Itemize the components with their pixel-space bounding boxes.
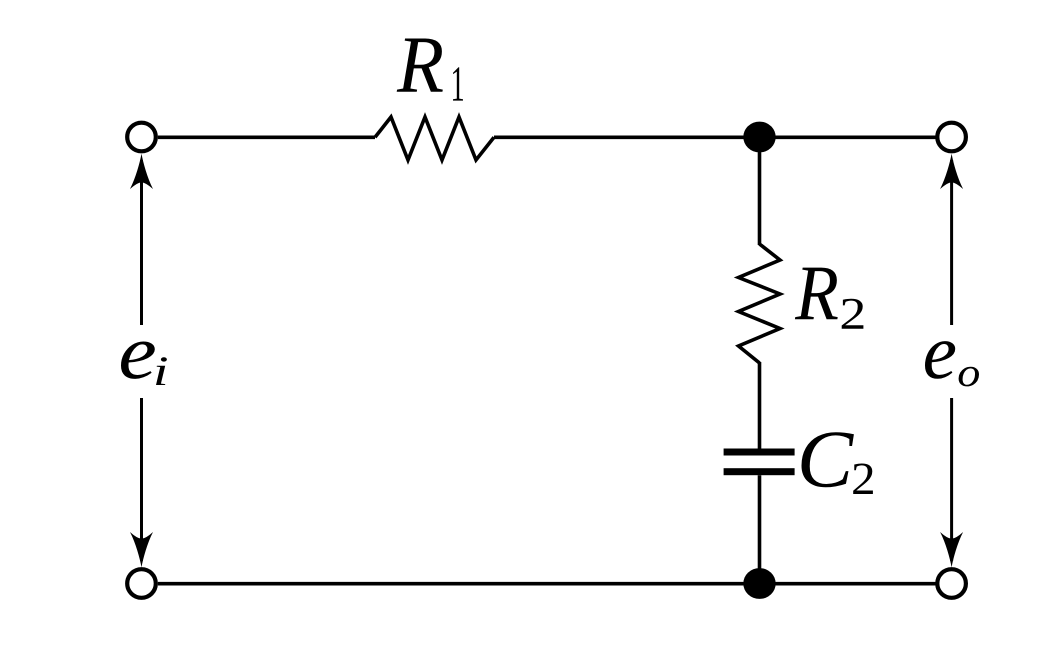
terminal: input bottom-left open circle [127,569,156,598]
wire: top rail right segment (R1 to output terminal) [494,136,936,140]
node: bottom junction dot [743,568,775,599]
wire: e_o arrow shaft upper [950,160,953,325]
wire: e_o arrow shaft lower [950,398,953,561]
label R2 [795,268,838,320]
wire: top rail left segment (input terminal to R1) [158,136,375,140]
terminal: input top-left open circle [127,123,156,152]
capacitor C2 bottom plate [724,468,795,475]
label e_o [925,341,955,379]
label C2 [801,432,853,487]
arrow: e_i down arrowhead [130,532,153,567]
capacitor C2 top plate [724,449,795,456]
terminal: output top-right open circle [937,123,966,152]
resistor R1 [375,117,494,160]
wire: middle branch upper segment (junction to R2) [758,150,762,245]
terminal: output bottom-right open circle [937,569,966,598]
node: top junction dot [743,122,775,153]
wire: middle branch between R2 and C2 [758,362,762,449]
label R1 [397,38,443,91]
wire: middle branch lower segment (C2 to bottom junction) [758,475,762,570]
label e_i [121,341,155,378]
arrow: e_i up arrowhead [130,154,153,189]
arrow: e_o up arrowhead [940,154,963,189]
arrow: e_o down arrowhead [940,532,963,567]
wire: bottom rail [158,582,936,586]
wire: e_i arrow shaft upper [140,160,143,325]
wire: e_i arrow shaft lower [140,398,143,561]
resistor R2 [739,244,781,363]
